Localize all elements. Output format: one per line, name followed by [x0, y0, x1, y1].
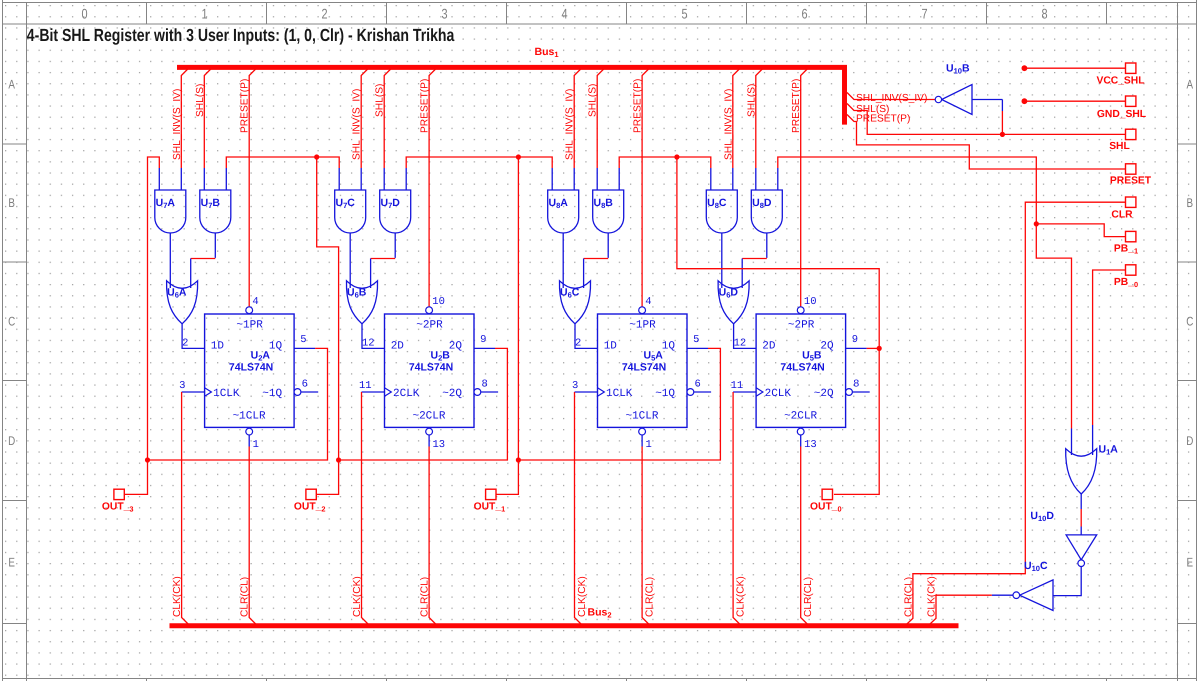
junction SHL/U10B input — [1000, 132, 1005, 137]
U1A input pins — [1072, 425, 1093, 455]
U5A ~Q pin — [687, 379, 711, 396]
svg-text:OUT_3: OUT_3 — [102, 501, 134, 513]
connector SHL — [1109, 129, 1136, 152]
svg-text:CLK(CK): CLK(CK) — [736, 576, 747, 617]
svg-text:74LS74N: 74LS74N — [229, 361, 273, 373]
net label CLK(CK) — [352, 576, 363, 617]
U2A CLK pin lead — [179, 380, 205, 392]
AND gate U7B — [200, 190, 231, 233]
wire U7B output to U6A — [191, 233, 216, 288]
connector OUT_0 — [810, 489, 842, 513]
net label SHL_INV(S_IV) right — [856, 93, 927, 104]
svg-text:~1Q: ~1Q — [655, 388, 675, 400]
wire U7C output to U6B — [349, 233, 351, 288]
wire U5B pin 13 to Bus2 CLR(CL) — [801, 447, 809, 626]
wire U10C output lead — [992, 594, 1013, 596]
net label SHL(S) — [588, 84, 599, 117]
svg-text:SHL_INV(S_IV): SHL_INV(S_IV) — [172, 89, 183, 160]
wire U5B CLK to Bus2 CLK(CK) — [733, 392, 741, 625]
svg-text:CLR(CL): CLR(CL) — [240, 577, 251, 617]
junction at OUT_1 tap — [516, 457, 521, 462]
net label CLR(CL) — [240, 577, 251, 617]
wire PRESET(P) drop to U2A pin 4 — [249, 69, 256, 307]
wire Q(U2A) output run — [148, 348, 328, 460]
svg-text:3: 3 — [179, 380, 185, 392]
gate label U10D — [1030, 510, 1054, 523]
wire U7A output to U6A — [169, 233, 171, 288]
svg-text:8: 8 — [853, 379, 859, 391]
svg-text:SHL(S): SHL(S) — [588, 84, 599, 117]
svg-text:D: D — [1186, 434, 1193, 448]
wire U6A output to U2A D — [182, 324, 205, 349]
net label PRESET(P) right — [856, 113, 910, 124]
wire CLR net — [905, 202, 1125, 625]
wire SHL(S) drop U7B — [204, 69, 211, 169]
U8D input pins — [756, 168, 778, 190]
AND gate U8C — [706, 190, 737, 233]
AND gate U7A — [155, 190, 186, 233]
wire Q(U5B) pin lead red — [867, 347, 880, 349]
pin 1 bubble — [639, 428, 652, 451]
svg-text:74LS74N: 74LS74N — [409, 361, 453, 373]
net label PRESET(P) — [420, 79, 431, 133]
junction on H3 — [674, 154, 679, 159]
svg-text:5: 5 — [681, 5, 687, 21]
svg-text:B: B — [8, 196, 15, 210]
inverter U10D — [1066, 535, 1097, 567]
pin 10 bubble — [426, 296, 445, 314]
svg-text:1: 1 — [201, 5, 207, 21]
wire OUT_1 drop — [496, 460, 518, 494]
AND gate U7D — [380, 190, 411, 233]
net label CLK(CK) — [577, 576, 588, 617]
svg-text:CLR: CLR — [1111, 209, 1133, 220]
AND gate U7C — [335, 190, 366, 233]
svg-text:C: C — [8, 315, 15, 329]
wire PRESET(P) drop to U2B pin 10 — [429, 69, 436, 307]
svg-text:CLR(CL): CLR(CL) — [645, 577, 656, 617]
net label SHL_INV(S_IV) — [172, 89, 183, 160]
U7B input pins — [204, 168, 226, 190]
svg-text:1Q: 1Q — [662, 341, 676, 353]
U2B CLK pin lead — [359, 380, 385, 392]
wire U8C output to U6D — [721, 233, 723, 288]
wire Q(U5A) output run — [518, 348, 720, 460]
svg-text:CLK(CK): CLK(CK) — [352, 576, 363, 617]
wire U2B CLK to Bus2 CLK(CK) — [362, 392, 370, 625]
junction on H1 — [314, 154, 319, 159]
connector PB_1 — [1114, 231, 1138, 255]
net label SHL(S) right — [856, 104, 889, 115]
OR gate U6D — [718, 281, 749, 324]
svg-text:PRESET(P): PRESET(P) — [856, 113, 910, 124]
title text — [27, 25, 455, 45]
wire SHL_INV(S_IV) drop U7A — [181, 69, 188, 169]
wire U2A pin 1 to Bus2 CLR(CL) — [249, 447, 257, 626]
net label SHL_INV(S_IV) — [565, 89, 576, 160]
svg-text:8: 8 — [1041, 5, 1047, 21]
svg-text:SHL_INV(S_IV): SHL_INV(S_IV) — [565, 89, 576, 160]
wire U5A CLK to Bus2 CLK(CK) — [575, 392, 583, 625]
pin 13 bubble — [797, 428, 816, 451]
svg-text:9: 9 — [480, 334, 486, 346]
svg-text:6: 6 — [302, 379, 308, 391]
wire Q(U2A) vertical to bridge — [148, 157, 160, 460]
svg-text:10: 10 — [804, 296, 817, 308]
svg-text:1: 1 — [253, 439, 259, 451]
U5B CLK pin lead — [731, 380, 757, 392]
svg-text:12: 12 — [362, 338, 375, 350]
svg-text:OUT_2: OUT_2 — [294, 501, 326, 513]
net label SHL(S) — [375, 84, 386, 117]
svg-text:~1CLR: ~1CLR — [625, 411, 658, 423]
connector PRESET — [1110, 164, 1152, 187]
svg-text:CLR(CL): CLR(CL) — [903, 577, 914, 617]
pin 4 bubble — [246, 296, 259, 314]
wire SHL_INV(S_IV) drop U8A — [574, 69, 581, 169]
wire U10D output to U10C input — [1053, 567, 1081, 596]
pin 4 bubble — [639, 296, 652, 314]
wire PB_0 net — [1093, 270, 1126, 425]
wire U6C output to U5A D — [575, 324, 598, 349]
svg-text:2D: 2D — [762, 341, 776, 353]
svg-text:E: E — [1187, 556, 1194, 570]
connector OUT_1 — [474, 489, 506, 513]
svg-text:PRESET(P): PRESET(P) — [240, 79, 251, 133]
wire SHL(S) drop U7D — [384, 69, 391, 169]
U2B Q pin lead — [474, 334, 495, 348]
OR gate U1A — [1066, 449, 1097, 494]
svg-text:7: 7 — [921, 5, 927, 21]
svg-text:SHL: SHL — [1109, 141, 1130, 152]
OR gate U6A — [167, 281, 198, 324]
wire U8A output to U6C — [562, 233, 564, 288]
wire SHL(S) drop U8B — [597, 69, 604, 169]
svg-text:GND_SHL: GND_SHL — [1097, 109, 1146, 120]
wire net H2 (Q of U5A feed) — [406, 157, 552, 168]
gate label U1A — [1099, 444, 1119, 457]
svg-text:E: E — [8, 556, 15, 570]
U8A input pins — [552, 168, 574, 190]
svg-text:10: 10 — [432, 296, 445, 308]
flip-flop U5B 74LS74N — [756, 314, 846, 427]
AND gate U8A — [548, 190, 579, 233]
wire OUT_2 drop — [316, 460, 338, 494]
pin number 2 — [182, 338, 188, 350]
wire U8B output to U6C — [584, 233, 609, 288]
wire U7D output to U6B — [371, 233, 396, 288]
svg-text:A: A — [8, 78, 15, 92]
wire Q(U2B) output run — [339, 348, 508, 460]
U5B Q pin lead — [846, 334, 867, 348]
AND gate U8B — [593, 190, 624, 233]
svg-text:SHL_INV(S_IV): SHL_INV(S_IV) — [723, 89, 734, 160]
svg-text:1CLK: 1CLK — [213, 388, 240, 400]
svg-text:3: 3 — [572, 380, 578, 392]
svg-text:4: 4 — [645, 296, 651, 308]
wire Q(U5B) to OUT_0 — [834, 348, 879, 494]
svg-text:PRESET: PRESET — [1110, 176, 1152, 187]
svg-text:PRESET(P): PRESET(P) — [420, 79, 431, 133]
U8B input pins — [597, 168, 619, 190]
svg-text:~1Q: ~1Q — [262, 388, 282, 400]
connector OUT_3 — [102, 489, 134, 513]
wire net H4 (PB_1) — [778, 157, 1072, 429]
wire net H3 (Q of U5B feed) — [619, 157, 711, 168]
U2A ~Q pin — [294, 379, 318, 396]
svg-text:2CLK: 2CLK — [393, 388, 420, 400]
net label CLR(CL) master — [903, 577, 914, 617]
junction PB_1 tap — [1034, 221, 1039, 226]
svg-text:11: 11 — [731, 380, 744, 392]
net label SHL(S) — [195, 84, 206, 117]
wire GND stub — [1022, 98, 1126, 104]
bus label Bus1 — [535, 46, 559, 59]
U7C input pins — [339, 168, 361, 190]
pin number 2 — [575, 338, 581, 350]
svg-text:6: 6 — [801, 5, 807, 21]
svg-text:2: 2 — [575, 338, 581, 350]
flip-flop U2B 74LS74N — [385, 314, 475, 427]
wire SHL_INV(S_IV) drop U7C — [361, 69, 368, 169]
wire SHL(S) drop U8D — [756, 69, 763, 169]
svg-text:CLK(CK): CLK(CK) — [172, 576, 183, 617]
svg-text:2: 2 — [321, 5, 327, 21]
junction at Q(U5B) — [877, 346, 882, 351]
bus Bus2 — [170, 623, 959, 628]
net label SHL_INV(S_IV) — [352, 89, 363, 160]
connector PB_0 — [1114, 265, 1138, 290]
wire PRESET net — [847, 115, 1126, 170]
junction on H2 — [516, 154, 521, 159]
svg-text:~1PR: ~1PR — [236, 319, 263, 331]
svg-text:CLR(CL): CLR(CL) — [420, 577, 431, 617]
wire U8D output to U6D — [742, 233, 767, 288]
connector CLR — [1111, 197, 1135, 220]
svg-text:1CLK: 1CLK — [606, 388, 633, 400]
net label CLK(CK) — [172, 576, 183, 617]
net label PRESET(P) — [240, 79, 251, 133]
svg-text:C: C — [1186, 315, 1193, 329]
wire OUT_3 drop — [124, 460, 147, 494]
svg-text:11: 11 — [359, 380, 372, 392]
svg-text:OUT_1: OUT_1 — [474, 501, 506, 513]
wire Q(U2B) riser — [317, 157, 339, 460]
wire net H1 (Q of U2B feed) — [226, 157, 339, 168]
pin number 12 — [734, 338, 747, 350]
U2A Q pin lead — [294, 334, 315, 348]
OR gate U6C — [559, 281, 590, 324]
svg-text:2CLK: 2CLK — [765, 388, 792, 400]
net label PRESET(P) — [633, 79, 644, 133]
wire SHL_INV(S_IV) from U10B — [847, 93, 935, 100]
junction at OUT_2 tap — [336, 457, 341, 462]
svg-text:1D: 1D — [604, 341, 618, 353]
U8C input pins — [711, 168, 733, 190]
net label SHL(S) — [746, 84, 757, 117]
OR gate U6B — [346, 281, 377, 324]
AND gate U8D — [751, 190, 782, 233]
svg-text:1Q: 1Q — [269, 341, 283, 353]
wire U6B output to U2B D — [362, 324, 385, 349]
svg-text:2Q: 2Q — [820, 341, 834, 353]
net label CLR(CL) — [420, 577, 431, 617]
svg-text:OUT_0: OUT_0 — [810, 501, 842, 513]
svg-text:D: D — [8, 434, 15, 448]
svg-text:5: 5 — [300, 334, 306, 346]
svg-text:12: 12 — [734, 338, 747, 350]
gate label U10C — [1024, 560, 1048, 573]
wire SHL(S) bus stub — [847, 104, 1126, 135]
svg-text:0: 0 — [81, 5, 87, 21]
svg-text:~2PR: ~2PR — [416, 319, 443, 331]
wire PB_1 branch — [1036, 224, 1125, 237]
connector GND_SHL — [1097, 96, 1146, 120]
svg-text:74LS74N: 74LS74N — [622, 361, 666, 373]
svg-text:1D: 1D — [211, 341, 225, 353]
svg-text:~2Q: ~2Q — [814, 388, 834, 400]
U5B ~Q pin — [846, 379, 870, 396]
pin number 12 — [362, 338, 375, 350]
U7D input pins — [384, 168, 406, 190]
svg-text:~2CLR: ~2CLR — [784, 411, 817, 423]
U5A CLK pin lead — [572, 380, 598, 392]
svg-text:3: 3 — [441, 5, 447, 21]
pin 10 bubble — [797, 296, 816, 314]
svg-text:SHL_INV(S_IV): SHL_INV(S_IV) — [856, 93, 927, 104]
svg-text:74LS74N: 74LS74N — [780, 361, 824, 373]
svg-text:4-Bit SHL Register with 3 User: 4-Bit SHL Register with 3 User Inputs: (… — [27, 25, 455, 45]
svg-text:SHL(S): SHL(S) — [746, 84, 757, 117]
svg-text:B: B — [1187, 196, 1194, 210]
net label CLK(CK) master — [926, 576, 937, 617]
wire Q(U5A) riser — [517, 157, 519, 460]
wire U2A CLK to Bus2 CLK(CK) — [182, 392, 190, 625]
bus Bus1 — [177, 67, 845, 124]
svg-text:SHL(S): SHL(S) — [375, 84, 386, 117]
svg-text:CLK(CK): CLK(CK) — [926, 576, 937, 617]
svg-text:2D: 2D — [391, 341, 405, 353]
wire U1A output to U10D — [1080, 494, 1082, 535]
bus label Bus2 — [588, 607, 612, 620]
net label SHL_INV(S_IV) — [723, 89, 734, 160]
connector OUT_2 — [294, 489, 326, 513]
net label PRESET(P) — [791, 79, 802, 133]
svg-text:9: 9 — [852, 334, 858, 346]
wire master clock to Bus2 — [929, 595, 992, 625]
svg-text:~1CLR: ~1CLR — [233, 411, 266, 423]
inverter U10B — [935, 63, 972, 115]
U2B ~Q pin — [474, 379, 498, 396]
svg-text:8: 8 — [482, 379, 488, 391]
U5A Q pin lead — [687, 334, 708, 348]
wire U5A pin 1 to Bus2 CLR(CL) — [642, 447, 650, 626]
svg-text:4: 4 — [561, 5, 567, 21]
wire U6D output to U5B D — [734, 324, 757, 349]
flip-flop U2A 74LS74N — [205, 314, 295, 427]
wire SHL_INV(S_IV) drop U8C — [733, 69, 740, 169]
net label CLR(CL) — [803, 577, 814, 617]
wire PRESET(P) drop to U5A pin 4 — [642, 69, 649, 307]
svg-text:~1PR: ~1PR — [629, 319, 656, 331]
svg-text:6: 6 — [695, 379, 701, 391]
svg-text:~2CLR: ~2CLR — [412, 411, 445, 423]
net label CLR(CL) — [645, 577, 656, 617]
svg-text:A: A — [1187, 78, 1194, 92]
svg-text:~2PR: ~2PR — [788, 319, 815, 331]
svg-text:CLK(CK): CLK(CK) — [577, 576, 588, 617]
svg-text:PRESET(P): PRESET(P) — [791, 79, 802, 133]
net label CLK(CK) — [736, 576, 747, 617]
wire U10B input — [972, 100, 1002, 135]
svg-text:4: 4 — [252, 296, 258, 308]
svg-text:~2Q: ~2Q — [442, 388, 462, 400]
connector VCC_SHL — [1096, 63, 1144, 87]
wire VCC stub — [1022, 65, 1126, 71]
svg-text:1: 1 — [646, 439, 652, 451]
inverter U10C — [1013, 580, 1053, 611]
wire U2B pin 13 to Bus2 CLR(CL) — [429, 447, 437, 626]
flip-flop U5A 74LS74N — [598, 314, 688, 427]
svg-text:2Q: 2Q — [449, 341, 463, 353]
svg-text:5: 5 — [693, 334, 699, 346]
svg-text:VCC_SHL: VCC_SHL — [1096, 76, 1144, 87]
wire Q(U5B) riser — [677, 157, 879, 348]
U7A input pins — [159, 168, 181, 190]
wire PRESET(P) drop to U5B pin 10 — [801, 69, 808, 307]
svg-text:SHL_INV(S_IV): SHL_INV(S_IV) — [352, 89, 363, 160]
pin 1 bubble — [246, 428, 259, 451]
pin 13 bubble — [426, 428, 445, 451]
svg-text:13: 13 — [433, 439, 446, 451]
svg-text:PRESET(P): PRESET(P) — [633, 79, 644, 133]
svg-text:2: 2 — [182, 338, 188, 350]
svg-text:13: 13 — [804, 439, 817, 451]
junction at OUT_3 tap — [145, 457, 150, 462]
svg-text:CLR(CL): CLR(CL) — [803, 577, 814, 617]
svg-text:SHL(S): SHL(S) — [195, 84, 206, 117]
